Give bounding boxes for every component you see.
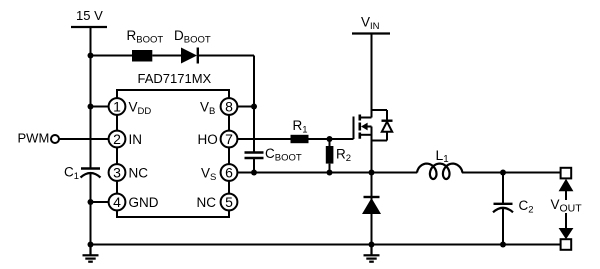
svg-text:HO: HO — [198, 132, 218, 147]
svg-text:3: 3 — [113, 165, 121, 181]
svg-text:FAD7171MX: FAD7171MX — [138, 71, 212, 86]
pin 4 — [109, 194, 126, 211]
wire pin2 PWM — [60, 138, 111, 140]
VIN supply bar — [352, 32, 390, 34]
VOUT terminal bottom — [561, 239, 572, 250]
svg-text:DBOOT: DBOOT — [174, 28, 211, 46]
svg-text:NC: NC — [197, 195, 217, 210]
svg-text:GND: GND — [129, 195, 159, 210]
node CBOOT to VS — [251, 170, 257, 176]
wire VS line pin6 to L1 — [236, 172, 410, 174]
svg-text:5: 5 — [225, 194, 233, 210]
svg-text:CBOOT: CBOOT — [265, 146, 302, 164]
resistor R2 — [326, 146, 334, 164]
svg-text:4: 4 — [113, 194, 121, 210]
svg-text:2: 2 — [113, 131, 121, 147]
capacitor CBOOT — [245, 153, 264, 159]
node D1 anode — [369, 242, 375, 248]
node R2 bottom — [327, 170, 333, 176]
wire pin1 to VDD rail — [91, 106, 111, 108]
svg-text:8: 8 — [225, 99, 233, 115]
wire L1 to VOUT — [462, 172, 561, 174]
resistor RBOOT — [132, 50, 152, 62]
wire DBOOT to boot corner — [198, 55, 254, 57]
wire R2 stubs — [329, 139, 331, 173]
svg-text:7: 7 — [225, 131, 233, 147]
capacitor C1 — [81, 169, 101, 178]
svg-text:L1: L1 — [436, 147, 449, 165]
capacitor C2 — [493, 173, 513, 245]
wire boot vertical to CBOOT — [253, 56, 255, 153]
node VB — [251, 104, 257, 110]
wire pin4 to rail — [91, 201, 111, 203]
node VDD rail to ground rail — [88, 242, 94, 248]
wire R1 to gate — [309, 138, 354, 140]
wire VDD rail vertical — [90, 27, 92, 168]
node switch SW — [369, 170, 375, 176]
diode DBOOT — [181, 48, 198, 64]
transistor Q1 — [354, 115, 372, 173]
node pin4 GND — [88, 199, 94, 205]
IC U1 FAD7171MX body — [117, 90, 229, 217]
ground rail bottom — [91, 244, 561, 246]
svg-text:6: 6 — [225, 165, 233, 181]
wire pin7 HO to R1 — [236, 138, 291, 140]
diode D2 body diode — [372, 110, 393, 141]
wire boot branch horizontal — [91, 55, 133, 57]
node C2 bottom — [500, 242, 506, 248]
pin 6 — [221, 164, 238, 181]
node R2 top — [327, 136, 333, 142]
wire VIN to drain — [371, 34, 373, 118]
wire CBOOT to VS line — [253, 159, 255, 173]
pin 7 — [221, 131, 238, 148]
ground symbol middle — [364, 245, 380, 262]
resistor R1 — [291, 135, 309, 143]
VOUT arrow up — [559, 179, 574, 200]
pin 5 — [221, 194, 238, 211]
node pin1 on VDD rail — [88, 104, 94, 110]
pin 3 — [109, 164, 126, 181]
VOUT arrow down — [559, 213, 574, 239]
svg-text:R2: R2 — [336, 147, 351, 165]
svg-text:NC: NC — [129, 166, 149, 181]
svg-text:VIN: VIN — [361, 15, 380, 33]
wire RBOOT to DBOOT — [152, 55, 181, 57]
node C2 top — [500, 170, 506, 176]
pin 2 — [109, 131, 126, 148]
ground symbol left — [83, 245, 99, 262]
pin 8 — [221, 98, 238, 115]
wire pin8 to boot vertical — [236, 106, 254, 108]
pin 1 — [109, 98, 126, 115]
wire C1 to ground rail — [90, 174, 92, 245]
svg-text:C1: C1 — [64, 165, 79, 183]
node boot branch on VDD rail — [88, 53, 94, 59]
svg-text:PWM: PWM — [18, 131, 50, 146]
inductor L1 — [410, 172, 466, 174]
15 V supply bar — [71, 26, 107, 28]
diode D1 freewheel — [362, 173, 381, 245]
svg-text:C2: C2 — [519, 198, 534, 216]
svg-text:1: 1 — [113, 99, 121, 115]
svg-text:R1: R1 — [293, 118, 308, 136]
svg-text:IN: IN — [129, 132, 143, 147]
svg-text:15 V: 15 V — [76, 8, 103, 23]
PWM input terminal — [51, 135, 59, 143]
VOUT terminal top — [561, 168, 572, 179]
svg-text:RBOOT: RBOOT — [127, 28, 164, 46]
